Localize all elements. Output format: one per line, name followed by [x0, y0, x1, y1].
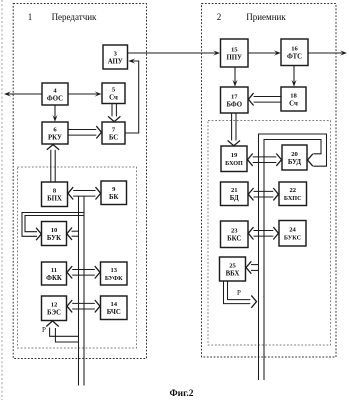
svg-text:23: 23: [231, 228, 238, 235]
svg-text:АПУ: АПУ: [108, 58, 123, 65]
svg-text:РКУ: РКУ: [48, 134, 62, 141]
svg-text:11: 11: [51, 267, 57, 274]
svg-text:1: 1: [28, 12, 33, 22]
svg-text:12: 12: [51, 302, 58, 309]
svg-text:2: 2: [217, 12, 222, 22]
svg-text:ППУ: ППУ: [226, 54, 242, 61]
svg-text:Сч: Сч: [109, 95, 118, 102]
svg-text:Передатчик: Передатчик: [52, 12, 97, 22]
svg-text:16: 16: [291, 46, 298, 53]
svg-text:Приемник: Приемник: [246, 12, 286, 22]
svg-text:БЭС: БЭС: [47, 310, 61, 317]
svg-text:БД: БД: [230, 195, 239, 202]
svg-text:Р: Р: [237, 289, 241, 297]
svg-text:БХПС: БХПС: [284, 195, 302, 202]
svg-text:Р: Р: [42, 326, 46, 334]
svg-text:БУД: БУД: [288, 159, 302, 166]
svg-text:ФКК: ФКК: [46, 275, 62, 282]
svg-text:БУКС: БУКС: [284, 235, 301, 242]
svg-text:22: 22: [289, 187, 296, 194]
svg-text:14: 14: [110, 301, 117, 308]
svg-text:13: 13: [110, 267, 117, 274]
svg-text:Сч: Сч: [289, 100, 298, 107]
svg-text:21: 21: [231, 187, 238, 194]
svg-text:БЧС: БЧС: [107, 309, 121, 316]
svg-text:БС: БС: [109, 134, 118, 141]
svg-text:17: 17: [231, 93, 238, 100]
svg-text:24: 24: [289, 227, 296, 234]
svg-text:БУФК: БУФК: [105, 275, 123, 282]
svg-text:20: 20: [291, 151, 298, 158]
svg-text:БУК: БУК: [47, 235, 61, 242]
svg-text:БК: БК: [109, 194, 118, 201]
svg-text:10: 10: [51, 227, 58, 234]
svg-text:15: 15: [231, 46, 238, 53]
svg-text:25: 25: [229, 262, 236, 269]
svg-text:БКС: БКС: [227, 236, 241, 243]
svg-text:ФТС: ФТС: [287, 54, 302, 61]
svg-text:18: 18: [290, 92, 297, 99]
svg-text:Фиг.2: Фиг.2: [169, 389, 193, 399]
svg-text:БХОП: БХОП: [225, 160, 243, 167]
svg-text:ВБХ: ВБХ: [226, 270, 240, 277]
svg-text:БПХ: БПХ: [47, 196, 62, 203]
svg-text:19: 19: [231, 152, 238, 159]
svg-text:БФО: БФО: [226, 101, 242, 108]
svg-text:ФОС: ФОС: [47, 95, 63, 102]
